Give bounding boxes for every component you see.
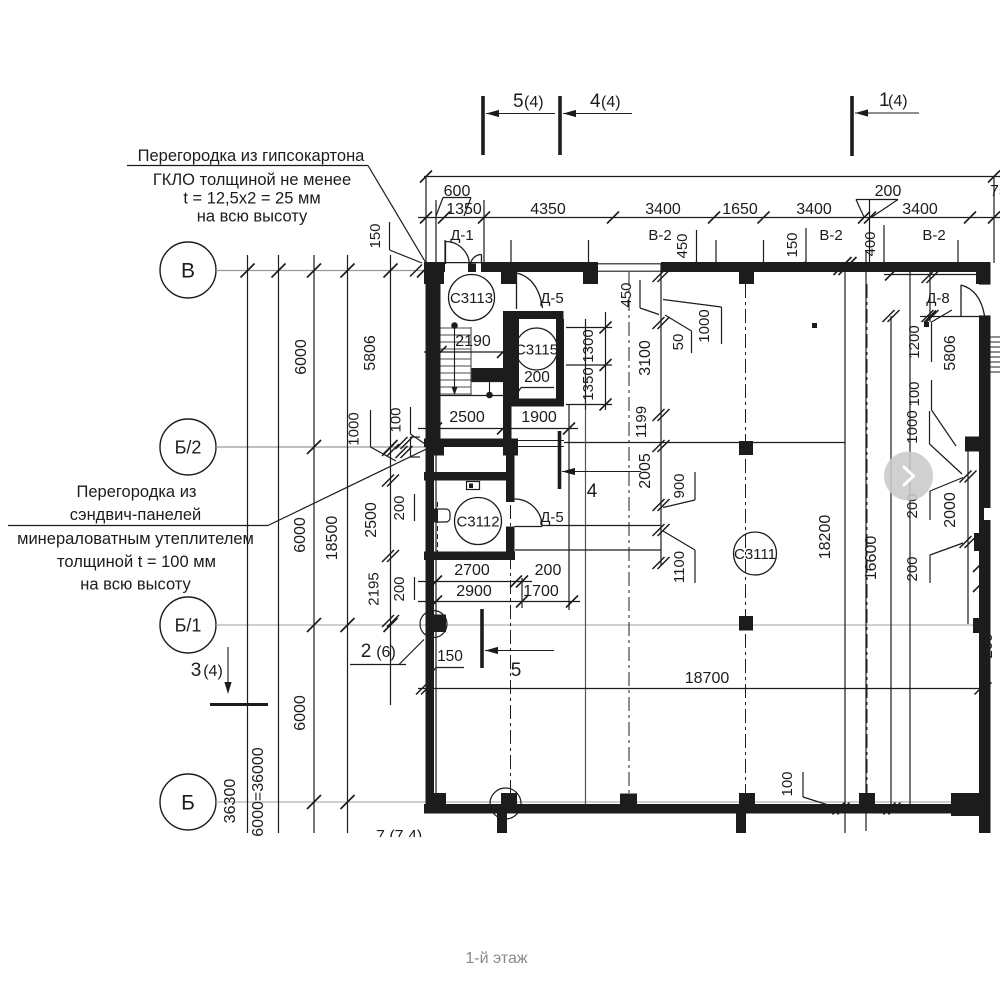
room C3115 west wall bbox=[512, 311, 520, 407]
wall stub below bottom wall x497 bbox=[497, 814, 507, 834]
dim chain line x347 bbox=[347, 255, 349, 833]
svg-text:В-2: В-2 bbox=[922, 227, 945, 244]
dim line 2500 1900 bbox=[418, 428, 578, 430]
svg-text:С3113: С3113 bbox=[450, 290, 493, 307]
svg-text:2195: 2195 bbox=[366, 572, 383, 605]
bottom-left corner column bbox=[428, 793, 446, 811]
svg-text:Д-5: Д-5 bbox=[540, 290, 564, 307]
dim line x910 vertical bbox=[909, 272, 911, 804]
svg-text:С3112: С3112 bbox=[456, 514, 499, 531]
svg-text:1300: 1300 bbox=[580, 329, 597, 362]
svg-text:2700: 2700 bbox=[454, 562, 490, 579]
door D-5 of C3112 bbox=[515, 526, 543, 528]
svg-text:3: 3 bbox=[191, 660, 202, 681]
section line 1(4) vertical bbox=[865, 252, 867, 831]
left outer wall bbox=[426, 262, 435, 814]
svg-text:5: 5 bbox=[513, 91, 524, 112]
svg-text:150: 150 bbox=[437, 648, 463, 665]
dim chain 1300 1350 lines bbox=[566, 327, 612, 329]
svg-text:450: 450 bbox=[674, 233, 691, 258]
svg-text:200: 200 bbox=[391, 576, 408, 601]
svg-text:1900: 1900 bbox=[521, 409, 557, 426]
room C3115 east wall bbox=[556, 319, 564, 407]
svg-text:1199: 1199 bbox=[633, 406, 650, 438]
ticks on bottom wall bbox=[833, 803, 845, 815]
svg-text:2005: 2005 bbox=[637, 453, 654, 489]
dim line D-8 top bbox=[884, 274, 979, 276]
svg-text:100: 100 bbox=[779, 771, 796, 796]
svg-text:на всю высоту: на всю высоту bbox=[197, 208, 308, 226]
stair hatch right edge bbox=[991, 336, 1000, 338]
ticks on axis B/2 bbox=[307, 440, 321, 454]
ticks on axis B/1 bbox=[307, 618, 321, 632]
axis circle В bbox=[160, 242, 216, 298]
svg-text:200: 200 bbox=[524, 369, 550, 386]
svg-text:1350: 1350 bbox=[446, 201, 482, 218]
bottom wall column x739 bbox=[739, 793, 755, 810]
section marker 5(4) bbox=[481, 96, 485, 155]
svg-text:50: 50 bbox=[670, 334, 687, 351]
svg-text:В: В bbox=[181, 260, 195, 283]
svg-text:5806: 5806 bbox=[362, 335, 379, 371]
ticks on axis B bbox=[241, 264, 255, 278]
dim line D-8 bottom bbox=[920, 316, 979, 318]
dim chain line x314 bbox=[313, 255, 315, 833]
left wall stair lining bbox=[434, 267, 441, 445]
svg-text:3400: 3400 bbox=[645, 201, 681, 218]
svg-text:минераловатным утеплителем: минераловатным утеплителем bbox=[17, 530, 254, 548]
wall stub below bottom wall x736 bbox=[736, 814, 746, 834]
bottom wall column x620 bbox=[620, 794, 637, 810]
stair treads lower flight bbox=[441, 358, 472, 360]
partition B/2 thin continuation single line bbox=[564, 442, 845, 444]
svg-text:150: 150 bbox=[784, 232, 801, 257]
room C3112 east wall upper bbox=[506, 456, 515, 503]
white crop cover bbox=[300, 837, 1000, 867]
svg-text:2900: 2900 bbox=[456, 583, 492, 600]
sandwich panel bracket symbol bbox=[410, 437, 412, 457]
svg-text:3400: 3400 bbox=[796, 201, 832, 218]
right wall column y533 bbox=[974, 533, 991, 551]
svg-text:200: 200 bbox=[391, 495, 408, 520]
door D-8 leaf bbox=[960, 285, 962, 316]
svg-text:2500: 2500 bbox=[449, 409, 485, 426]
svg-text:100: 100 bbox=[906, 381, 923, 406]
svg-text:Перегородка из: Перегородка из bbox=[77, 483, 197, 501]
extension line x522 bbox=[521, 578, 523, 608]
door D-1 leaf 2 bbox=[481, 255, 483, 265]
dim chain x968 right bbox=[967, 451, 969, 624]
svg-text:толщиной t = 100 мм: толщиной t = 100 мм bbox=[57, 553, 216, 571]
partition B/2 thin continuation double lines bbox=[515, 440, 564, 442]
dim chain line x247 bbox=[247, 255, 249, 833]
axis line B/2 horizontal bbox=[216, 446, 425, 448]
dim chain line x278 bbox=[278, 255, 280, 833]
svg-text:3400: 3400 bbox=[902, 201, 938, 218]
svg-text:1000: 1000 bbox=[696, 309, 713, 342]
extension line x569 bbox=[568, 404, 570, 610]
svg-text:400: 400 bbox=[862, 231, 879, 256]
svg-text:Д-1: Д-1 bbox=[450, 227, 474, 244]
svg-text:150: 150 bbox=[367, 223, 384, 248]
svg-text:900: 900 bbox=[671, 473, 688, 498]
dim line 18700 bbox=[418, 688, 989, 690]
column axis dash-dot x745 bbox=[745, 284, 747, 793]
svg-text:В-2: В-2 bbox=[819, 227, 842, 244]
svg-text:1650: 1650 bbox=[722, 201, 758, 218]
svg-text:200: 200 bbox=[875, 183, 902, 200]
top wall window zone lines bbox=[598, 263, 661, 265]
top dim line 2 bbox=[418, 217, 1000, 219]
corridor line y550 bbox=[515, 549, 661, 551]
svg-text:6000: 6000 bbox=[292, 517, 309, 553]
room C3112 south wall bbox=[424, 552, 515, 561]
wall stub below bottom wall right bbox=[979, 816, 991, 833]
dashed insulation line in C3112 bbox=[437, 502, 439, 560]
room label C3112 bbox=[455, 498, 502, 545]
svg-text:(4): (4) bbox=[203, 663, 223, 680]
svg-text:6000: 6000 bbox=[292, 695, 309, 731]
svg-text:450: 450 bbox=[618, 282, 635, 307]
wall face ticks right bbox=[973, 562, 983, 572]
stair dim line 2190 bbox=[424, 351, 507, 353]
column top wall x583 bbox=[583, 266, 598, 284]
svg-text:5806: 5806 bbox=[942, 335, 959, 371]
door D-5 stairwell opening bbox=[503, 284, 512, 311]
svg-text:ГКЛО толщиной не менее: ГКЛО толщиной не менее bbox=[153, 171, 351, 189]
axis circle Б/1 bbox=[160, 597, 216, 653]
svg-text:100: 100 bbox=[388, 407, 405, 432]
svg-text:36300: 36300 bbox=[222, 779, 239, 824]
section marker 5 bottom bbox=[480, 609, 484, 668]
window gap right wall bbox=[984, 508, 991, 520]
door D-8 opening gap in right wall bbox=[979, 284, 991, 316]
svg-text:1100: 1100 bbox=[671, 551, 688, 583]
dim line 2700 200 bbox=[418, 581, 532, 583]
svg-text:С3115: С3115 bbox=[515, 342, 558, 359]
interior column x739 y616 bbox=[739, 616, 753, 631]
svg-text:сэндвич-панелей: сэндвич-панелей bbox=[70, 506, 202, 524]
stair landing wall bbox=[472, 368, 504, 382]
svg-text:200: 200 bbox=[904, 556, 921, 581]
extension lines above top wall bbox=[425, 177, 427, 263]
bottom wall bbox=[424, 804, 991, 814]
svg-text:t = 12,5х2 = 25 мм: t = 12,5х2 = 25 мм bbox=[183, 190, 320, 208]
room label C3115 bbox=[516, 328, 558, 370]
right wall junction blob y436 bbox=[965, 437, 991, 452]
small square marker in room bbox=[812, 323, 817, 328]
extra tick B axis near wall bbox=[410, 265, 422, 277]
svg-text:Б: Б bbox=[181, 792, 195, 815]
right outer wall bbox=[979, 262, 991, 816]
dim chain line x661 bbox=[660, 264, 662, 565]
dim line 18200 vertical bbox=[844, 264, 846, 833]
svg-text:1200: 1200 bbox=[906, 325, 923, 358]
svg-text:1700: 1700 bbox=[523, 583, 559, 600]
svg-text:(6): (6) bbox=[376, 644, 396, 661]
axis circle Б/2 bbox=[160, 419, 216, 475]
door D-1 leaf 1 bbox=[445, 242, 447, 265]
dim chain line x390 bbox=[390, 255, 392, 705]
svg-text:18500: 18500 bbox=[324, 516, 341, 561]
svg-text:(4): (4) bbox=[601, 94, 621, 111]
stair arrow flight 2 bbox=[489, 382, 491, 392]
svg-text:С3111: С3111 bbox=[734, 546, 776, 563]
bottom wall column x859 bbox=[859, 793, 875, 809]
annotation underline and leader bbox=[127, 165, 368, 167]
column top wall x501 bbox=[501, 266, 517, 284]
dim line 16600 vertical bbox=[890, 316, 892, 810]
wall crossing tick x845 bbox=[834, 257, 852, 275]
section marker 1(4) bbox=[850, 96, 854, 156]
annotation sandwich underline and leader bbox=[8, 525, 268, 527]
top wall left segment bbox=[424, 262, 445, 272]
svg-text:3100: 3100 bbox=[637, 340, 654, 376]
svg-text:Д-5: Д-5 bbox=[540, 509, 564, 526]
room label C3111 bbox=[734, 532, 777, 575]
dim line 2900 1700 bbox=[418, 601, 580, 603]
stair landing bottom edge bbox=[472, 381, 504, 383]
top wall door D-1 mullion bbox=[468, 264, 476, 273]
door D-5 stairwell leaf and arc bbox=[516, 273, 518, 309]
bottom wall column x501 bbox=[501, 793, 517, 811]
room C3115 north wall bbox=[512, 311, 564, 319]
svg-text:2500: 2500 bbox=[363, 502, 380, 538]
column at B/1 left wall bbox=[429, 615, 447, 633]
svg-text:5: 5 bbox=[511, 660, 522, 681]
axis circle Б bbox=[160, 774, 216, 830]
svg-text:1000: 1000 bbox=[904, 410, 921, 443]
room C3112 north wall bbox=[424, 472, 508, 481]
svg-text:1-й этаж: 1-й этаж bbox=[465, 950, 527, 967]
column circle at B bottom bbox=[490, 788, 521, 819]
svg-text:(4): (4) bbox=[524, 94, 544, 111]
svg-text:75: 75 bbox=[990, 183, 1000, 200]
gray nav button bbox=[884, 452, 933, 501]
svg-text:6000=36000: 6000=36000 bbox=[250, 747, 267, 837]
axis line B bottom horizontal bbox=[216, 801, 979, 803]
svg-text:200: 200 bbox=[979, 633, 996, 658]
stair arrow flight 1 bbox=[452, 323, 458, 329]
svg-text:4350: 4350 bbox=[530, 201, 566, 218]
partition wall B/2 sandwich panel bbox=[424, 439, 515, 448]
vent marker on C3112 north wall bbox=[467, 482, 480, 490]
top-right corner column bbox=[976, 262, 991, 284]
svg-text:Б/2: Б/2 bbox=[175, 437, 202, 457]
stair bottom line bbox=[433, 395, 503, 397]
axis line B horizontal bbox=[216, 270, 425, 272]
svg-text:2190: 2190 bbox=[455, 333, 491, 350]
top dim line 1 overall bbox=[424, 176, 1000, 178]
svg-text:18700: 18700 bbox=[685, 670, 730, 687]
dim line x930 vertical bbox=[929, 272, 931, 322]
column axis dash-dot x510 bbox=[510, 455, 512, 793]
svg-text:16600: 16600 bbox=[863, 536, 880, 581]
interior column x739 y441 bbox=[739, 441, 753, 455]
svg-text:В-2: В-2 bbox=[648, 227, 671, 244]
room C3112 east wall lower bbox=[506, 527, 515, 552]
svg-text:18200: 18200 bbox=[817, 515, 834, 560]
room C3115 south wall bbox=[512, 399, 565, 407]
svg-text:4: 4 bbox=[590, 91, 601, 112]
stair treads upper flight bbox=[441, 327, 472, 329]
stairwell east wall bbox=[503, 267, 512, 439]
top-left corner column bbox=[424, 262, 444, 284]
corridor line y525 bbox=[542, 525, 661, 527]
column top wall x739 bbox=[739, 266, 754, 284]
section marker 4(4) bbox=[558, 96, 562, 155]
stair tread edge line bbox=[470, 327, 472, 396]
svg-text:Перегородка из гипсокартона: Перегородка из гипсокартона bbox=[138, 147, 366, 165]
right wall column y618 bbox=[973, 618, 991, 633]
column axis dash-dot x629 bbox=[628, 272, 630, 793]
svg-text:2000: 2000 bbox=[942, 492, 959, 528]
svg-text:4: 4 bbox=[587, 481, 598, 502]
svg-text:200: 200 bbox=[535, 562, 562, 579]
column circle at B/1 left wall bbox=[420, 611, 447, 638]
svg-text:(4): (4) bbox=[888, 93, 908, 110]
wash basin in C3112 bbox=[432, 509, 450, 522]
svg-text:1000: 1000 bbox=[346, 412, 363, 445]
svg-text:6000: 6000 bbox=[293, 339, 310, 375]
partition grid line x585 bbox=[585, 410, 587, 804]
axis line B/1 horizontal bbox=[216, 624, 979, 626]
top wall mid segment bbox=[481, 262, 598, 272]
bottom-right corner column bbox=[951, 793, 991, 816]
stair junction blob at B/2 bbox=[503, 439, 518, 456]
section marker 4 bottom bbox=[558, 431, 562, 489]
svg-text:2: 2 bbox=[361, 641, 372, 662]
svg-text:1350: 1350 bbox=[580, 367, 597, 400]
room label C3113 bbox=[449, 275, 495, 321]
left wall inner face line bbox=[435, 447, 437, 804]
column axis dash-dot x867 bbox=[866, 284, 868, 793]
svg-text:на всю высоту: на всю высоту bbox=[80, 576, 191, 594]
junction blob left wall B/2 bbox=[429, 439, 444, 456]
top wall right segment bbox=[661, 262, 990, 272]
top wall outer face line at door bbox=[445, 262, 481, 264]
double ticks left chain at B/2 walls bbox=[382, 444, 394, 456]
ticks on axis B bottom bbox=[307, 795, 321, 809]
svg-text:Б/1: Б/1 bbox=[175, 615, 202, 635]
